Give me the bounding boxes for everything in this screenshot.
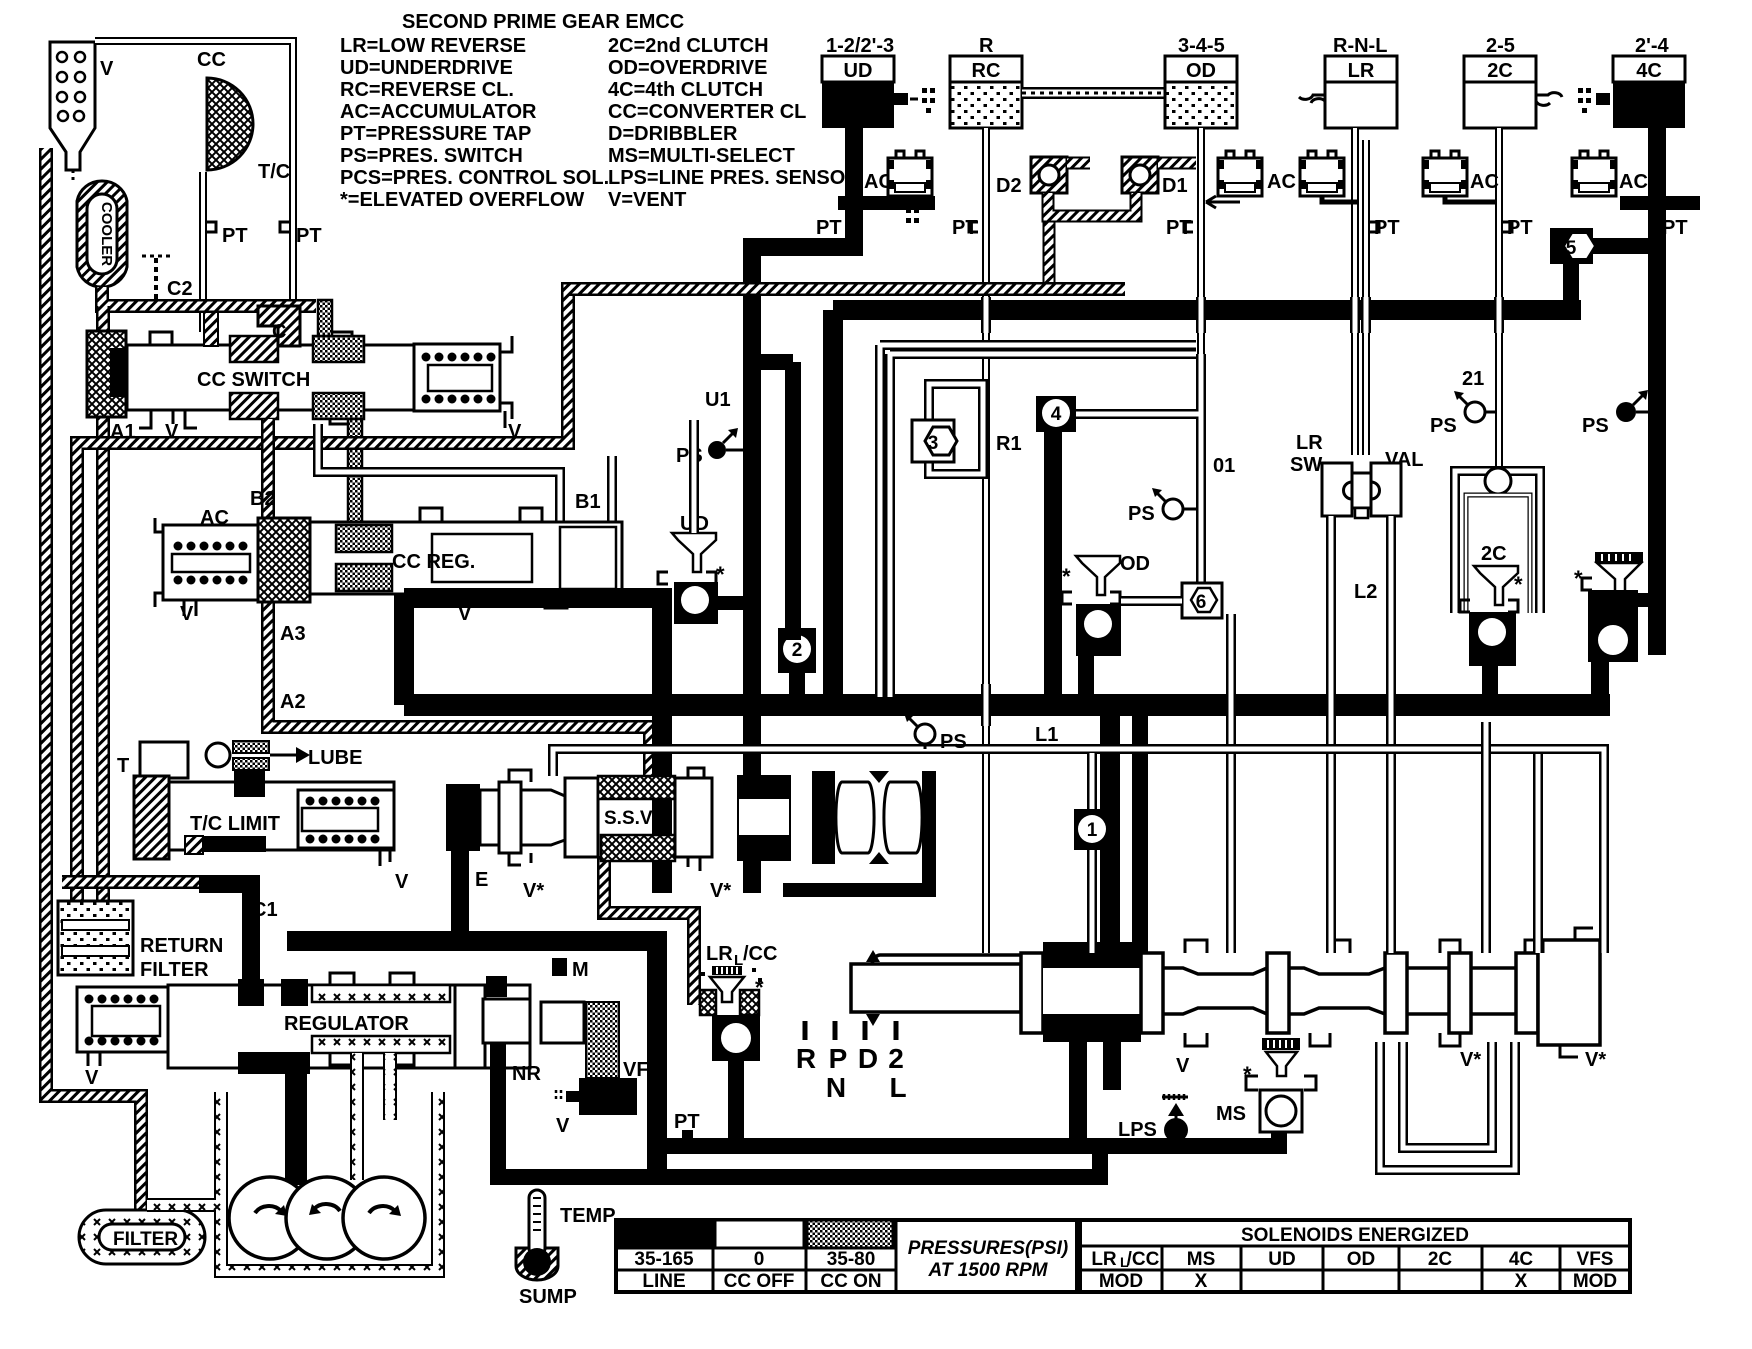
svg-text:35-80: 35-80 [827, 1249, 876, 1270]
return filter [58, 901, 223, 981]
svg-text:OD: OD [1347, 1249, 1376, 1270]
svg-text:T/C LIMIT: T/C LIMIT [190, 813, 280, 835]
svg-text:LPS=LINE PRES. SENSOR: LPS=LINE PRES. SENSOR [608, 167, 860, 189]
svg-text:AC=ACCUMULATOR: AC=ACCUMULATOR [340, 101, 537, 123]
svg-text:UD: UD [1268, 1249, 1295, 1270]
filter FILTER (sump) [79, 1210, 205, 1264]
svg-text:T/C: T/C [258, 161, 290, 183]
accumulator AC (4C) [1572, 151, 1648, 196]
svg-text:FILTER: FILTER [140, 959, 209, 981]
svg-text:3: 3 [928, 433, 939, 454]
svg-text:PT: PT [1662, 217, 1688, 239]
accumulator AC (UD) [864, 151, 932, 196]
wire dribbler riser hatched [1043, 216, 1056, 289]
clutch box OD [1165, 35, 1237, 128]
wire left border hatched vertical 2 [70, 450, 84, 905]
wire LR feed lines [1355, 128, 1366, 455]
clutch box 2C [1464, 35, 1562, 128]
junction 1 [1074, 753, 1111, 953]
wire thin-line crossings over thick lines [986, 297, 1499, 726]
svg-text:PT: PT [816, 217, 842, 239]
svg-text:PS: PS [1430, 415, 1457, 437]
wire C1 thick [199, 884, 251, 985]
clutch box RC [950, 35, 1022, 128]
svg-text:PT: PT [1374, 217, 1400, 239]
svg-text:MOD: MOD [1573, 1271, 1617, 1292]
wire supply down right side [647, 931, 667, 1180]
svg-text:SECOND PRIME GEAR EMCC: SECOND PRIME GEAR EMCC [402, 11, 684, 33]
wire hatched feed to LRL/CC [604, 856, 694, 1005]
svg-text:CC=CONVERTER CL: CC=CONVERTER CL [608, 101, 806, 123]
svg-text:CC ON: CC ON [820, 1271, 881, 1292]
valve LRL/CC [694, 943, 777, 1139]
svg-text:MOD: MOD [1099, 1271, 1143, 1292]
svg-text:OD: OD [1186, 60, 1216, 82]
svg-text:4C=4th CLUTCH: 4C=4th CLUTCH [608, 79, 763, 101]
svg-text:35-165: 35-165 [634, 1249, 694, 1270]
wire cooler-to-switch hatched line [102, 287, 316, 306]
svg-text:CC: CC [197, 49, 226, 71]
svg-text:PT: PT [1507, 217, 1533, 239]
svg-text:2: 2 [792, 640, 803, 661]
svg-text:MS=MULTI-SELECT: MS=MULTI-SELECT [608, 145, 795, 167]
valve S.S.V. [446, 768, 936, 941]
svg-text:PT: PT [674, 1111, 700, 1133]
svg-text:X: X [1195, 1271, 1208, 1292]
svg-text:V*: V* [1460, 1049, 1481, 1071]
svg-text:X: X [1515, 1271, 1528, 1292]
svg-text:L1: L1 [1035, 724, 1058, 746]
svg-text:LUBE: LUBE [308, 747, 362, 769]
svg-text:C1: C1 [252, 899, 278, 921]
svg-text:TEMP: TEMP [560, 1205, 616, 1227]
svg-text:V: V [1176, 1055, 1190, 1077]
svg-text:CC SWITCH: CC SWITCH [197, 369, 310, 391]
check valve 2C [1460, 543, 1523, 700]
svg-text:4C: 4C [1509, 1249, 1534, 1270]
clutch box 4C [1578, 35, 1685, 128]
solenoid VF dotted column [586, 1002, 619, 1078]
svg-text:PT=PRESSURE TAP: PT=PRESSURE TAP [340, 123, 531, 145]
wire regulator to pump thick [285, 1052, 307, 1185]
svg-text:*: * [1062, 564, 1071, 589]
svg-text:LR: LR [706, 943, 733, 965]
svg-text:2C: 2C [1481, 543, 1507, 565]
wire A2/A3 hatched line [268, 419, 650, 777]
svg-text:3-4-5: 3-4-5 [1178, 35, 1225, 57]
svg-text:OD: OD [1120, 553, 1150, 575]
thin line network mid [880, 345, 1196, 697]
svg-text:AC: AC [1619, 171, 1648, 193]
svg-text:PT: PT [952, 217, 978, 239]
manual valve gear selector letters [796, 1021, 907, 1103]
wire A-line hatched (under CC SWITCH) [77, 289, 1125, 456]
sensor LPS [1118, 1094, 1188, 1142]
accumulator AC (2C) [1423, 151, 1499, 202]
pressure tap PT (line) [682, 1130, 693, 1139]
svg-text:0: 0 [754, 1249, 765, 1270]
wire CC REG thick output down to main line [394, 594, 414, 705]
junction 4 [1036, 396, 1076, 700]
wire 4C thick feed [1648, 128, 1666, 655]
svg-text:COOLER: COOLER [98, 202, 115, 266]
svg-text:V*: V* [1585, 1049, 1606, 1071]
accumulator AC (LR) [1300, 151, 1358, 202]
svg-text:2C: 2C [1487, 60, 1513, 82]
svg-text:FILTER: FILTER [113, 1229, 178, 1250]
svg-text:NR: NR [512, 1063, 541, 1085]
svg-text:/CC: /CC [743, 943, 777, 965]
thermometer TEMP [516, 1190, 616, 1308]
wire manual valve inlet stubs [1100, 705, 1120, 953]
svg-text:2: 2 [888, 1043, 904, 1074]
svg-text:LR: LR [1296, 432, 1323, 454]
svg-text:VFS: VFS [1577, 1249, 1614, 1270]
switch PS (4C line) [1582, 390, 1650, 437]
pressure tap PT (T/C right) [280, 222, 322, 247]
clutch box UD [822, 35, 935, 223]
clutch box LR [1299, 35, 1397, 128]
switch PS (U1 area) [676, 428, 744, 467]
svg-text:1-2/2'-3: 1-2/2'-3 [826, 35, 894, 57]
solenoid PCS [556, 1078, 637, 1137]
wire T/C right line down to CC SWITCH [289, 78, 297, 332]
wire CC REG thick output right and down to S.S.V. [404, 598, 662, 893]
svg-text:D=DRIBBLER: D=DRIBBLER [608, 123, 738, 145]
wire 2C envelope to manual valve [1481, 722, 1491, 953]
wire B1 [607, 456, 617, 522]
wire main line thick [404, 694, 1610, 716]
svg-text:PT: PT [296, 225, 322, 247]
wire D-line hatched redraw (over thin lines) [568, 282, 1125, 296]
svg-text:PRESSURES(PSI): PRESSURES(PSI) [908, 1238, 1068, 1259]
svg-text:E: E [475, 869, 488, 891]
svg-text:PS: PS [940, 731, 967, 753]
svg-text:L: L [889, 1072, 906, 1103]
wire 2C feed line [1495, 128, 1503, 471]
svg-text:V=VENT: V=VENT [608, 189, 686, 211]
svg-text:L: L [1120, 1254, 1129, 1270]
valve T/C LIMIT [117, 741, 409, 893]
svg-text:B1: B1 [575, 491, 601, 513]
svg-text:MS: MS [1216, 1103, 1246, 1125]
wire OD feed line [1197, 128, 1205, 583]
wire RC-OD dotted tube [1022, 87, 1165, 99]
wire R feed line [982, 128, 990, 953]
wire upper thick line [833, 310, 1581, 705]
envelope 2C accumulator [1455, 468, 1540, 613]
svg-text:LR: LR [1091, 1249, 1117, 1270]
svg-text:2'-4: 2'-4 [1635, 35, 1670, 57]
svg-text:AC: AC [1470, 171, 1499, 193]
wire CC supply to converter [95, 41, 293, 80]
wire manual valve bottom loops [1380, 1042, 1515, 1170]
svg-text:V: V [100, 58, 114, 80]
svg-text:D1: D1 [1162, 175, 1188, 197]
svg-text:6: 6 [1196, 592, 1207, 613]
svg-text:MS: MS [1187, 1249, 1216, 1270]
svg-text:PCS=PRES. CONTROL SOL.: PCS=PRES. CONTROL SOL. [340, 167, 609, 189]
svg-text:C: C [272, 321, 286, 343]
svg-text:D: D [858, 1043, 878, 1074]
cooler [77, 181, 127, 287]
table pressures [616, 1220, 1077, 1292]
switch PS (2C line 21) [1430, 368, 1497, 437]
wire L1 branch to manual valve land [1533, 754, 1543, 953]
wire branch to junction 2 [752, 362, 793, 640]
svg-text:PS: PS [1582, 415, 1609, 437]
svg-text:SOLENOIDS ENERGIZED: SOLENOIDS ENERGIZED [1241, 1225, 1469, 1246]
svg-text:2C: 2C [1428, 1249, 1453, 1270]
table solenoids energized [1080, 1220, 1630, 1292]
svg-text:5: 5 [1566, 238, 1577, 259]
check valve UD [658, 468, 746, 624]
svg-text:A2: A2 [280, 691, 306, 713]
svg-text:LPS: LPS [1118, 1119, 1157, 1141]
valve CC SWITCH [87, 300, 522, 522]
svg-text:LR: LR [1348, 60, 1375, 82]
svg-text:4: 4 [1051, 404, 1062, 425]
svg-text:UD: UD [844, 60, 873, 82]
svg-text:A3: A3 [280, 623, 306, 645]
svg-text:2C=2nd CLUTCH: 2C=2nd CLUTCH [608, 35, 769, 57]
wire pump supply thick line [287, 931, 655, 951]
svg-text:N: N [826, 1072, 846, 1103]
pressure tap PT (T/C left) [207, 222, 248, 247]
wire C1 hatched from return filter [62, 875, 199, 889]
svg-text:V: V [556, 1115, 570, 1137]
switch PS (O1) [1128, 488, 1197, 525]
svg-text:RETURN: RETURN [140, 935, 223, 957]
svg-text:PT: PT [222, 225, 248, 247]
svg-text:4C: 4C [1636, 60, 1662, 82]
node C2 [142, 256, 193, 300]
wire T/C left line down to CC SWITCH [199, 172, 207, 332]
check valve 4C [1574, 551, 1657, 700]
svg-text:VF: VF [623, 1059, 649, 1081]
legend column 2 [608, 35, 860, 211]
svg-text:RC=REVERSE CL.: RC=REVERSE CL. [340, 79, 514, 101]
wire left border hatched vertical 1 [46, 148, 141, 1212]
svg-text:V: V [395, 871, 409, 893]
junction 6 [1182, 583, 1231, 953]
svg-text:V*: V* [523, 880, 544, 902]
svg-text:D2: D2 [996, 175, 1022, 197]
svg-text:U1: U1 [705, 389, 731, 411]
wire UD thick feed [752, 128, 854, 893]
svg-text:21: 21 [1462, 368, 1484, 390]
svg-text:*=ELEVATED OVERFLOW: *=ELEVATED OVERFLOW [340, 189, 584, 211]
wire to LPS thick line [650, 1126, 1279, 1146]
switch PS (L1) [904, 713, 967, 753]
valve CC REG [258, 508, 622, 625]
svg-text:R: R [979, 35, 994, 57]
manual valve body [851, 928, 1606, 1077]
svg-text:CC REG.: CC REG. [392, 551, 475, 573]
accumulator AC (OD) [1206, 151, 1296, 208]
wire LR lines below valve [1331, 516, 1391, 953]
check valve OD [1062, 553, 1182, 700]
svg-text:PS=PRES. SWITCH: PS=PRES. SWITCH [340, 145, 523, 167]
svg-text:SW: SW [1290, 454, 1322, 476]
pump circles [229, 1177, 425, 1259]
svg-text:R: R [796, 1043, 816, 1074]
vent stack V (top-left) [50, 42, 114, 182]
svg-text:T: T [117, 755, 129, 777]
svg-text:UD=UNDERDRIVE: UD=UNDERDRIVE [340, 57, 513, 79]
svg-text:V*: V* [710, 880, 731, 902]
svg-text:SUMP: SUMP [519, 1286, 577, 1308]
valve LR SW VAL [1290, 432, 1424, 518]
svg-text:L2: L2 [1354, 581, 1377, 603]
junction 5 [1550, 228, 1657, 317]
svg-text:PCS: PCS [587, 1088, 628, 1110]
wire dribbler hatched loop [1048, 193, 1136, 216]
svg-text:2-5: 2-5 [1486, 35, 1515, 57]
svg-text:S.S.V.: S.S.V. [604, 808, 656, 829]
svg-text:AT 1500 RPM: AT 1500 RPM [928, 1260, 1049, 1281]
svg-text:V: V [85, 1067, 99, 1089]
svg-text:C2: C2 [167, 278, 193, 300]
svg-text:1: 1 [1087, 820, 1098, 841]
svg-text:LINE: LINE [642, 1271, 685, 1292]
svg-text:OD=OVERDRIVE: OD=OVERDRIVE [608, 57, 767, 79]
legend column 1 [340, 35, 609, 211]
svg-text:R-N-L: R-N-L [1333, 35, 1387, 57]
valve REGULATOR [77, 958, 589, 1089]
svg-text:REGULATOR: REGULATOR [284, 1013, 409, 1035]
svg-text:AC: AC [1267, 171, 1296, 193]
valve MS [1216, 1038, 1316, 1132]
wire B2 [318, 424, 560, 522]
svg-text:R1: R1 [996, 433, 1022, 455]
dribbler D1 [1122, 157, 1188, 197]
wire pump feed tubes [357, 1053, 390, 1180]
wire sump enclosure xpat [147, 1092, 438, 1271]
svg-text:B2: B2 [250, 488, 276, 510]
junction 3 and R1 loop [912, 384, 1022, 474]
svg-text:P: P [829, 1043, 848, 1074]
wire L1 line [553, 749, 1604, 953]
wire NR return U [498, 1043, 660, 1177]
accumulator AC (CC REG) [155, 507, 258, 625]
svg-text:V: V [180, 603, 194, 625]
svg-text:*: * [1514, 572, 1523, 597]
torque converter T/C dome [197, 49, 290, 183]
svg-text:01: 01 [1213, 455, 1235, 477]
svg-text:RC: RC [972, 60, 1001, 82]
svg-text:CC OFF: CC OFF [724, 1271, 795, 1292]
junction 2 [778, 628, 816, 700]
svg-text:LR=LOW REVERSE: LR=LOW REVERSE [340, 35, 526, 57]
wire left border hatched vertical 3 [96, 306, 110, 905]
svg-text:PS: PS [1128, 503, 1155, 525]
svg-text:/CC: /CC [1127, 1249, 1160, 1270]
svg-text:M: M [572, 959, 589, 981]
svg-text:PT: PT [1166, 217, 1192, 239]
dribbler D2 [996, 157, 1067, 197]
wire E line thick [451, 845, 469, 941]
